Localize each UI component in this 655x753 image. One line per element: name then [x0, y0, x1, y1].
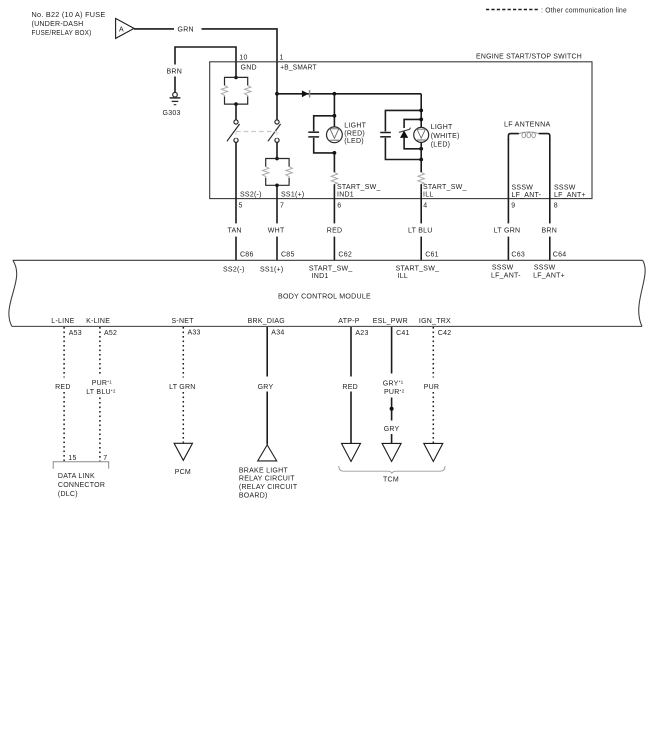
wire pin4 to BCM — [420, 199, 422, 224]
svg-text:LT BLU: LT BLU — [408, 228, 433, 235]
svg-text:No. B22 (10 A) FUSE: No. B22 (10 A) FUSE — [32, 12, 106, 19]
svg-text:+B_SMART: +B_SMART — [280, 65, 317, 72]
wire GRN continues — [202, 29, 278, 62]
wire white LED group: cap top lead — [385, 110, 421, 131]
svg-text:C62: C62 — [338, 252, 352, 259]
wire ESL_PWR solid upper — [391, 327, 393, 374]
capacitor C (white) bottom lead — [385, 138, 421, 160]
brake light relay destination triangle — [258, 445, 277, 461]
switch link vertical stubs dashed — [235, 132, 237, 139]
svg-text:G303: G303 — [163, 110, 181, 117]
wire resistor to pin 4 — [420, 184, 422, 198]
svg-text:C86: C86 — [240, 252, 254, 259]
LF antenna coil L — [508, 134, 549, 140]
LED (red) triangle — [330, 129, 339, 139]
junction dot — [234, 76, 238, 80]
svg-text:LF_ANT+: LF_ANT+ — [533, 273, 565, 280]
diode cathode bar — [309, 90, 311, 97]
capacitor C (red) top lead — [314, 116, 335, 131]
wire white LED bottom rail — [420, 142, 422, 172]
junction dot IND1 branch — [333, 92, 337, 96]
svg-text:ILL: ILL — [398, 273, 408, 280]
wire to ground — [174, 77, 176, 93]
switch mechanical link dashed — [236, 131, 277, 133]
svg-text:START_SW_: START_SW_ — [396, 265, 440, 272]
switch SS1 contact circles — [275, 120, 279, 124]
junction dot white cap bottom — [419, 158, 423, 162]
wire ATP-P solid upper — [350, 327, 352, 377]
svg-text:ATP-P: ATP-P — [338, 318, 359, 325]
wire pin8 to BCM — [549, 199, 551, 224]
junction dot splice — [390, 407, 394, 411]
DLC connector bracket — [53, 462, 108, 469]
svg-text:C64: C64 — [553, 252, 567, 259]
svg-text:A34: A34 — [271, 330, 284, 337]
switch SS2 blade — [227, 124, 240, 141]
svg-text:(DLC): (DLC) — [58, 491, 78, 498]
svg-text:BODY CONTROL MODULE: BODY CONTROL MODULE — [278, 294, 371, 301]
wire pin1 to diode node — [276, 62, 278, 120]
svg-text:BRN: BRN — [167, 68, 183, 75]
svg-text:(WHITE): (WHITE) — [431, 133, 460, 140]
connector arrow A — [116, 18, 134, 38]
svg-text:SS2(-): SS2(-) — [240, 192, 262, 199]
legend: other communication line sample — [486, 9, 538, 11]
svg-text:9: 9 — [511, 203, 515, 210]
svg-text:SS2(-): SS2(-) — [223, 266, 245, 273]
LED (red) circle — [327, 127, 343, 143]
svg-text:A53: A53 — [69, 330, 82, 337]
svg-text:IND1: IND1 — [312, 273, 329, 280]
svg-text:A33: A33 — [188, 330, 201, 337]
wire SS1 switch to resistor pair — [276, 142, 278, 158]
wire to pin 7 — [276, 185, 278, 198]
svg-text:SSSW: SSSW — [512, 184, 534, 191]
svg-text:A52: A52 — [104, 330, 117, 337]
junction dot red cap top — [333, 114, 337, 118]
capacitor C (red) plates — [308, 131, 319, 133]
junction dot zener top — [419, 118, 423, 122]
switch SS2 contact circles — [234, 120, 238, 124]
wire L-LINE dotted lower — [63, 392, 65, 461]
wire pin6 to BCM — [333, 199, 335, 224]
resistor zigzag left — [221, 85, 227, 96]
svg-text:TCM: TCM — [383, 476, 399, 483]
svg-text:PCM: PCM — [175, 469, 191, 476]
ground G303 symbol — [170, 92, 181, 104]
svg-text:GRN: GRN — [178, 27, 194, 34]
resistor (ILL) zigzag — [418, 172, 424, 184]
svg-text:BOARD): BOARD) — [239, 492, 268, 499]
svg-text:FUSE/RELAY BOX): FUSE/RELAY BOX) — [32, 30, 92, 37]
capacitor C (white) plates — [380, 132, 391, 134]
svg-text:8: 8 — [554, 203, 558, 210]
svg-text:START_SW_: START_SW_ — [423, 184, 467, 191]
wire pin7 to BCM — [276, 199, 278, 224]
svg-text:RED: RED — [55, 384, 71, 391]
wire diode rail — [277, 93, 421, 95]
svg-text:RED: RED — [342, 384, 358, 391]
svg-text:ENGINE START/STOP SWITCH: ENGINE START/STOP SWITCH — [476, 54, 582, 61]
wire antenna left to pin 9 — [507, 139, 509, 199]
junction dot at diode branch — [275, 92, 279, 96]
svg-text:START_SW_: START_SW_ — [337, 184, 381, 191]
PCM destination triangle — [174, 443, 192, 460]
diode D — [302, 90, 309, 97]
svg-text:C61: C61 — [425, 252, 439, 259]
junction dot — [275, 184, 279, 188]
wire IGN_TRX dotted lower — [432, 392, 434, 443]
wire red LED branch — [333, 94, 335, 127]
wire K-LINE dotted upper — [99, 327, 101, 374]
wire LED red to resistor — [333, 153, 335, 172]
svg-text:LF ANTENNA: LF ANTENNA — [504, 121, 551, 128]
svg-text:SSSW: SSSW — [492, 265, 514, 272]
LED (red) bar — [330, 139, 339, 141]
wire ESL_PWR lower — [391, 434, 393, 443]
LED (white) bar — [417, 139, 426, 141]
wire L-LINE dotted upper — [63, 327, 65, 378]
svg-text:TAN: TAN — [228, 228, 242, 235]
TCM destination triangle 1 — [342, 443, 361, 461]
svg-text:SSSW: SSSW — [554, 184, 576, 191]
svg-text:(LED): (LED) — [344, 138, 364, 145]
svg-text:(RELAY CIRCUIT: (RELAY CIRCUIT — [239, 484, 298, 491]
wire BRK_DIAG solid lower — [266, 392, 268, 445]
svg-text:IGN_TRX: IGN_TRX — [419, 318, 451, 325]
svg-text:L-LINE: L-LINE — [51, 318, 74, 325]
svg-text:LIGHT: LIGHT — [344, 123, 366, 130]
svg-text:C41: C41 — [396, 330, 410, 337]
svg-text:(RED): (RED) — [344, 130, 365, 137]
svg-text:15: 15 — [68, 455, 76, 462]
svg-text:4: 4 — [423, 203, 427, 210]
svg-text:K-LINE: K-LINE — [86, 318, 110, 325]
svg-text:(UNDER-DASH: (UNDER-DASH — [32, 21, 84, 28]
resistor pair R (SS1 side) frame — [266, 159, 289, 186]
wire resistor to pin 6 — [333, 184, 335, 198]
svg-text:RED: RED — [327, 228, 343, 235]
svg-text:SSSW: SSSW — [534, 265, 556, 272]
resistor zigzag right — [245, 85, 251, 96]
svg-text:1: 1 — [280, 55, 284, 62]
svg-text:CONNECTOR: CONNECTOR — [58, 482, 105, 489]
svg-text:GRY: GRY — [384, 426, 400, 433]
wire GRN from fuse to pin 1 — [134, 28, 174, 30]
wire SS2 down to pin 5 — [235, 142, 237, 198]
capacitor C (red) bottom lead — [314, 138, 335, 153]
svg-text:PUR: PUR — [424, 384, 440, 391]
svg-text:A: A — [119, 26, 124, 33]
zener diode ZD top lead — [404, 119, 421, 128]
LED (white) triangle — [417, 129, 425, 138]
svg-text:ESL_PWR: ESL_PWR — [373, 318, 408, 325]
svg-text:LF_ANT-: LF_ANT- — [491, 273, 521, 280]
junction dot — [234, 102, 238, 106]
svg-text:C63: C63 — [511, 252, 525, 259]
svg-text:LF_ANT+: LF_ANT+ — [554, 192, 586, 199]
svg-text:LT GRN: LT GRN — [494, 228, 521, 235]
junction dot — [275, 157, 279, 161]
svg-text:START_SW_: START_SW_ — [309, 265, 353, 272]
svg-text:DATA LINK: DATA LINK — [58, 473, 95, 480]
svg-text:GRY: GRY — [258, 384, 274, 391]
engine start/stop switch box — [210, 62, 592, 199]
svg-text:GND: GND — [241, 65, 257, 72]
wire antenna right to pin 8 — [549, 139, 551, 199]
resistor pair R (GND side) frame — [225, 77, 248, 104]
svg-text:(LED): (LED) — [431, 142, 451, 149]
resistor zigzag right — [286, 167, 292, 178]
svg-text:WHT: WHT — [268, 228, 285, 235]
svg-text:7: 7 — [103, 455, 107, 462]
svg-text:: Other communication line: : Other communication line — [541, 8, 627, 15]
wire pin10 to resistor pair — [235, 62, 237, 78]
junction dot white cap top — [419, 109, 423, 113]
wire pin9 to BCM — [507, 199, 509, 224]
body control module band — [9, 260, 645, 326]
svg-text:7: 7 — [280, 203, 284, 210]
svg-text:ILL: ILL — [423, 192, 433, 199]
zener bar slanted — [399, 128, 411, 133]
svg-text:SS1(+): SS1(+) — [281, 192, 304, 199]
wire GND branch: pin 10 up and over to ground — [175, 47, 236, 65]
LED (white) circle — [414, 127, 429, 142]
wire IGN_TRX dotted upper — [432, 327, 434, 378]
svg-text:A23: A23 — [355, 330, 368, 337]
TCM destination triangle 2 — [382, 443, 401, 461]
switch SS1 blade — [268, 124, 281, 141]
svg-text:SS1(+): SS1(+) — [260, 266, 283, 273]
wire to switch SS2 — [235, 104, 237, 120]
junction dot zener bottom — [419, 147, 423, 151]
wire S-NET dotted lower — [182, 392, 184, 443]
svg-text:LT GRN: LT GRN — [169, 384, 196, 391]
svg-text:BRK_DIAG: BRK_DIAG — [248, 318, 285, 325]
svg-text:IND1: IND1 — [337, 192, 354, 199]
wire ATP-P solid lower — [350, 392, 352, 444]
wire ESL_PWR middle — [391, 398, 393, 421]
TCM destination triangle 3 — [424, 443, 443, 461]
svg-text:RELAY CIRCUIT: RELAY CIRCUIT — [239, 476, 295, 483]
TCM underbrace — [339, 466, 445, 473]
zener triangle — [400, 130, 408, 138]
svg-text:LIGHT: LIGHT — [431, 124, 453, 131]
wire S-NET dotted upper — [182, 327, 184, 378]
svg-text:BRAKE LIGHT: BRAKE LIGHT — [239, 467, 289, 474]
wire BRK_DIAG solid upper — [266, 327, 268, 377]
resistor zigzag left — [263, 167, 269, 178]
wire pin5 to BCM — [235, 199, 237, 224]
svg-text:LF_ANT-: LF_ANT- — [512, 192, 542, 199]
svg-text:6: 6 — [337, 203, 341, 210]
svg-text:10: 10 — [239, 55, 247, 62]
svg-text:5: 5 — [239, 203, 243, 210]
zener bottom lead — [404, 138, 421, 149]
wire K-LINE dotted lower — [99, 398, 101, 462]
svg-text:S-NET: S-NET — [172, 318, 195, 325]
svg-text:BRN: BRN — [542, 228, 558, 235]
resistor (IND1) zigzag — [331, 172, 337, 184]
svg-text:C42: C42 — [438, 330, 452, 337]
junction dot red LED bottom — [333, 151, 337, 155]
svg-text:C85: C85 — [281, 252, 295, 259]
wire down to white LED group — [420, 94, 422, 128]
